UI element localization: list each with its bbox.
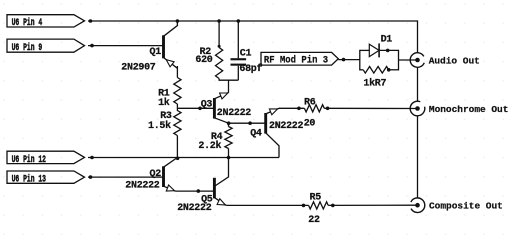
wire diode block left branch	[359, 50, 361, 71]
node before R6	[297, 107, 301, 111]
svg-text:2N2222: 2N2222	[125, 181, 160, 192]
node on wire to Q3 base	[198, 107, 202, 111]
node at U6 Pin 4 flag tip	[89, 19, 93, 23]
node at U6 Pin 9 flag tip	[90, 44, 94, 48]
label R6	[304, 98, 316, 109]
resistor R5 22	[309, 202, 329, 209]
label R4	[211, 132, 223, 143]
label 1k	[158, 97, 170, 109]
label 68pf	[239, 63, 262, 75]
resistor R1 1k	[174, 78, 181, 105]
label 2N2222 of Q3	[217, 108, 252, 119]
wire rail to C1	[237, 21, 239, 58]
input flag U6 Pin 4	[7, 15, 85, 29]
svg-text:U6 Pin 4: U6 Pin 4	[12, 17, 43, 29]
wire R3 to bus	[176, 136, 178, 158]
resistor R4 2.2k	[225, 123, 232, 157]
label Monochrome Out	[429, 104, 509, 115]
wire shield rail Monochrome Out to Composite Out	[417, 116, 419, 198]
node after D1	[386, 49, 390, 53]
input flag U6 Pin 9	[7, 39, 85, 53]
wire rail to R2	[218, 21, 220, 48]
wire U6 Pin 9 to Q1 base	[88, 45, 164, 47]
svg-text:R6: R6	[304, 98, 316, 109]
wire U6 Pin 13 to Q2 base	[88, 176, 164, 178]
label Q4	[250, 129, 262, 140]
label C1	[240, 48, 252, 59]
svg-text:RF Mod Pin 3: RF Mod Pin 3	[264, 54, 328, 66]
wire diode block to Audio Out	[399, 59, 418, 61]
wire Q1 emitter to R1	[176, 66, 178, 78]
node before R5	[302, 204, 306, 208]
svg-text:2.2k: 2.2k	[198, 140, 221, 152]
svg-text:1kR7: 1kR7	[363, 77, 386, 89]
label Q1	[150, 47, 162, 58]
wire R2/C1 bar to Q3 emitter	[228, 80, 230, 92]
wire R2 bottom to C1 bottom bar	[219, 79, 238, 81]
wire Q3 collector to Q4 base	[229, 122, 266, 124]
label 2N2222 of Q4	[269, 121, 304, 132]
node on wire to Q4 base	[248, 121, 252, 125]
svg-text:1k: 1k	[158, 97, 170, 109]
transistor Q4 2N2222	[266, 108, 280, 157]
resistor R3 1.5k	[174, 111, 181, 136]
svg-text:620: 620	[195, 55, 212, 66]
node after R5	[331, 204, 335, 208]
node R2 lead	[218, 45, 221, 48]
svg-text:U6 Pin 12: U6 Pin 12	[12, 153, 46, 165]
label 1kR7	[363, 77, 386, 89]
resistor R6 20	[304, 105, 324, 112]
label R3	[160, 111, 172, 122]
label 20	[304, 119, 316, 130]
label 2N2222 of Q2	[125, 181, 160, 192]
svg-text:U6 Pin 9: U6 Pin 9	[12, 41, 43, 53]
svg-text:2N2222: 2N2222	[269, 121, 304, 132]
svg-text:22: 22	[308, 215, 320, 226]
label R1	[158, 89, 170, 100]
wire U6 Pin 12 bus	[88, 157, 279, 159]
node after R7	[387, 68, 391, 72]
svg-text:2N2222: 2N2222	[177, 203, 212, 214]
svg-text:Q4: Q4	[250, 129, 262, 140]
label Q5	[201, 195, 213, 206]
label 620	[195, 55, 212, 66]
svg-text:Q2: Q2	[150, 169, 162, 180]
label Composite Out	[429, 200, 503, 211]
label R5	[310, 193, 322, 204]
svg-text:U6 Pin 13: U6 Pin 13	[12, 173, 46, 185]
wire shield rail Audio Out to Monochrome Out	[417, 67, 419, 101]
svg-text:Audio Out: Audio Out	[429, 56, 480, 67]
capacitor C1 68pf	[231, 58, 247, 80]
label Q3	[201, 100, 213, 111]
node after R6	[326, 107, 330, 111]
node R4 / Q5 collector on bus	[227, 156, 231, 160]
transistor Q3 2N2222	[214, 93, 228, 124]
wire diode block right branch	[398, 50, 400, 71]
label D1	[381, 34, 393, 45]
svg-text:D1: D1	[381, 34, 393, 45]
transistor Q2 2N2222	[164, 158, 178, 192]
wire R1/R3 node to Q3 base	[177, 107, 214, 109]
diode D1	[360, 43, 399, 57]
node at U6 Pin 13 flag tip	[89, 175, 93, 179]
svg-text:C1: C1	[240, 48, 252, 59]
transistor Q5 2N2222	[214, 158, 228, 206]
label R2	[200, 47, 212, 58]
transistor Q1 2N2907	[164, 21, 178, 68]
svg-text:2N2222: 2N2222	[217, 108, 252, 119]
svg-text:Composite Out: Composite Out	[429, 200, 503, 211]
connector Monochrome Out jack	[410, 101, 425, 116]
node C1 top on rail	[237, 19, 241, 23]
svg-text:68pf: 68pf	[239, 63, 262, 75]
wire R5 to Composite Out	[328, 204, 417, 206]
svg-text:20: 20	[304, 119, 316, 130]
connector Composite Out jack	[411, 198, 425, 213]
label 2N2222 of Q5	[177, 203, 212, 214]
label Q2	[150, 169, 162, 180]
wire right shield rail down to Audio Out	[417, 20, 419, 52]
label Audio Out	[429, 56, 480, 67]
wire R6 to Monochrome Out	[324, 107, 417, 109]
svg-text:Monochrome Out: Monochrome Out	[429, 104, 509, 115]
wire Q4 emitter to R6	[279, 107, 304, 109]
input flag U6 Pin 13	[7, 171, 85, 185]
wire R1 to R3 junction	[176, 104, 178, 111]
svg-text:1.5k: 1.5k	[148, 120, 171, 132]
label 22	[308, 215, 320, 226]
wire RF Mod Pin 3 to diode block	[338, 59, 360, 61]
svg-text:Q3: Q3	[201, 100, 213, 111]
svg-text:2N2907: 2N2907	[121, 62, 156, 73]
label 2N2907	[121, 62, 156, 73]
wire U6 Pin 4 top rail	[88, 20, 418, 22]
svg-text:R5: R5	[310, 193, 322, 204]
label 1.5k	[148, 120, 171, 132]
node Q3 collector junction	[227, 121, 231, 125]
node R3 / Q2 collector on bus	[176, 157, 180, 161]
wire Q2 emitter to Q5 base	[176, 190, 215, 192]
resistor R2 620	[216, 48, 223, 81]
node at RF Mod Pin 3 flag tip	[342, 58, 346, 62]
label 2.2k	[198, 140, 221, 152]
node at U6 Pin 12 flag tip	[90, 156, 94, 160]
flag RF Mod Pin 3	[261, 52, 338, 65]
input flag U6 Pin 12	[7, 151, 85, 165]
wire Q5 emitter to R5	[226, 204, 308, 206]
svg-text:Q1: Q1	[150, 47, 162, 58]
node R2 top on rail	[217, 19, 221, 23]
node Q1 collector on top rail	[176, 19, 180, 23]
connector Audio Out jack	[410, 53, 424, 68]
resistor R7 1k	[360, 67, 399, 74]
node on wire to Q5 base	[197, 189, 201, 193]
